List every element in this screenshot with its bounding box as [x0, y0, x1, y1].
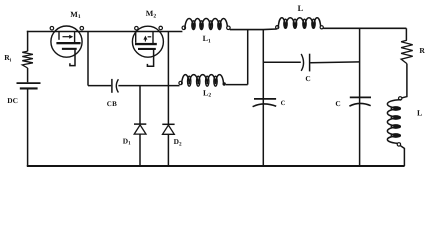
wire lower C path left	[263, 61, 301, 63]
inductor L top-left terminal curl	[276, 26, 279, 29]
inductor L1 coil	[185, 19, 194, 29]
diode D1 cathode bar	[134, 123, 146, 125]
svg-text:D1: D1	[123, 136, 131, 146]
svg-text:L: L	[417, 109, 422, 118]
transistor M1 gate arrow	[63, 36, 70, 38]
transistor M2 source stem	[147, 50, 153, 66]
inductor L1 right terminal circle	[227, 26, 231, 30]
inductor L load bottom terminal circle	[397, 143, 400, 146]
wire battery to bottom rail	[27, 89, 29, 166]
diode D2 cathode bar	[162, 123, 174, 125]
diode D1 triangle	[134, 125, 146, 134]
wire R1 to battery	[27, 68, 29, 82]
capacitor CB left plate	[111, 79, 113, 93]
capacitor CB right curved plate	[116, 79, 118, 92]
transistor M2 gate lead drop	[135, 32, 137, 43]
wire bottom rail	[27, 165, 405, 167]
wire R to inductor L	[402, 64, 407, 98]
transistor M1 gate bar	[56, 42, 80, 44]
svg-text:DC: DC	[7, 96, 18, 105]
wire left vertical top (DC+ to rail)	[27, 31, 29, 51]
capacitor C right top plate	[350, 96, 371, 98]
transistor M2 gate arrow	[144, 39, 146, 42]
transistor M2 gate bar	[135, 43, 157, 45]
svg-text:R: R	[419, 46, 425, 55]
transistor M1 right terminal circle	[80, 26, 84, 30]
svg-text:M1: M1	[70, 10, 81, 20]
wire drain node down to CB node	[87, 32, 89, 86]
battery DC source positive plate	[17, 82, 41, 84]
wire L2 to riser	[226, 84, 248, 86]
inductor L1 left terminal circle	[182, 26, 186, 30]
inductor L2 right end dot	[223, 82, 226, 85]
svg-text:C: C	[335, 99, 340, 108]
svg-text:C: C	[281, 100, 286, 107]
diode D2 wire from top rail (crosses CB line)	[167, 32, 169, 125]
transistor M2 left terminal circle	[135, 26, 139, 30]
svg-text:Ri: Ri	[4, 53, 11, 63]
inductor L load top terminal circle	[399, 97, 402, 100]
svg-text:D2: D2	[174, 137, 182, 147]
wire top rail right segment	[323, 27, 406, 29]
svg-text:L1: L1	[203, 34, 211, 44]
wire inductor L to bottom rail	[401, 146, 405, 166]
svg-text:L: L	[298, 4, 304, 13]
diode D1 wire to bottom rail	[139, 134, 141, 166]
wire mid rail	[230, 28, 277, 31]
wire right shunt vertical	[359, 28, 361, 166]
inductor L load coil	[387, 100, 400, 109]
battery DC source negative plate	[20, 87, 38, 89]
diode D2 triangle	[163, 125, 175, 134]
diode D2 wire to bottom rail	[167, 135, 169, 167]
capacitor C series right plate	[309, 54, 311, 72]
transistor M1 left terminal circle	[50, 26, 54, 30]
wire lower C path right	[310, 61, 359, 64]
inductor L2 left terminal circle	[179, 81, 182, 84]
wire riser L2 to mid rail	[247, 30, 249, 85]
wire top rail left segment	[27, 31, 183, 33]
transistor M1 gate lead drop	[58, 32, 60, 40]
transistor M2 body circle	[132, 26, 163, 57]
capacitor C series left curved plate	[301, 54, 303, 71]
svg-text:L2: L2	[203, 88, 211, 98]
svg-text:M2: M2	[146, 9, 157, 19]
transistor M2 right terminal circle	[159, 26, 163, 30]
svg-text:CB: CB	[107, 100, 117, 108]
inductor L coil	[278, 18, 285, 28]
resistor R load	[401, 40, 413, 63]
capacitor C middle curved plate	[253, 104, 277, 107]
transistor M2 channel bar	[138, 48, 156, 50]
inductor L2 coil	[182, 75, 190, 85]
transistor M1 body circle	[51, 26, 82, 57]
diode D1 anode wire	[139, 86, 141, 124]
capacitor C middle top plate	[254, 98, 276, 100]
svg-text:C: C	[305, 74, 310, 83]
transistor M1 drain stub	[74, 32, 76, 43]
wire CB to diode node	[118, 85, 179, 87]
wire CB node horizontal left	[88, 85, 111, 87]
resistor R1 (source internal resistance)	[22, 51, 33, 68]
inductor L right terminal curl	[320, 26, 323, 29]
wire middle shunt branch vertical	[262, 30, 264, 166]
transistor M1 channel bar	[62, 48, 77, 50]
capacitor C right curved plate	[349, 103, 370, 106]
transistor M2 drain stub	[152, 32, 154, 44]
transistor M1 source stem	[70, 50, 75, 66]
wire right rail corner down	[405, 28, 407, 40]
